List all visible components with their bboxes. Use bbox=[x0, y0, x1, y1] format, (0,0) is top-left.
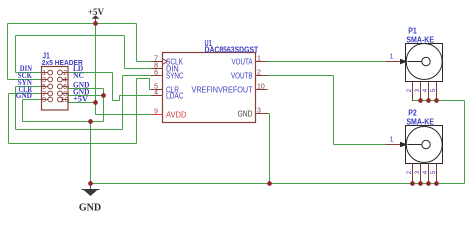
ground symbol GND bbox=[79, 184, 101, 214]
U1 pin 10 VREFINVREFOUT bbox=[192, 84, 268, 95]
U1 pin 2 VOUTB bbox=[231, 70, 268, 81]
junction U1 GND on bus bbox=[267, 181, 272, 186]
svg-text:4: 4 bbox=[154, 90, 158, 97]
svg-text:3: 3 bbox=[42, 77, 46, 84]
svg-text:6: 6 bbox=[63, 84, 67, 91]
svg-text:SYNC: SYNC bbox=[166, 71, 184, 80]
junction P2 pin3 bbox=[418, 181, 423, 186]
svg-text:GND: GND bbox=[16, 91, 33, 100]
junction P1 pin4 bbox=[426, 98, 431, 103]
junction P2 pin2 bbox=[410, 181, 415, 186]
U1 pin 8 DIN bbox=[151, 63, 179, 74]
svg-text:P2: P2 bbox=[408, 109, 417, 118]
svg-text:LDAC: LDAC bbox=[166, 91, 184, 100]
U1 pin 6 SYNC bbox=[151, 70, 184, 81]
svg-text:9: 9 bbox=[154, 109, 158, 116]
U1 pin 3 GND bbox=[238, 108, 268, 119]
svg-text:2: 2 bbox=[257, 70, 261, 77]
wire net DIN: J1 pin1 to U1 pin8 bbox=[16, 36, 152, 73]
U1 pin 1 VOUTA bbox=[232, 56, 268, 67]
svg-text:P1: P1 bbox=[408, 27, 417, 36]
svg-text:VREFINVREFOUT: VREFINVREFOUT bbox=[192, 85, 253, 94]
IC U1 DAC8563SDGST bbox=[163, 39, 259, 123]
junction P1 pin5 bbox=[434, 98, 439, 103]
P1 shield pin 3 bbox=[415, 82, 421, 102]
svg-text:10: 10 bbox=[61, 97, 69, 104]
junction +5V lower bbox=[93, 100, 98, 105]
P2 shield pin 2 bbox=[407, 164, 413, 184]
P1 shield pin 2 bbox=[407, 82, 413, 102]
junction P2 pin4 bbox=[426, 181, 431, 186]
P2 shield pin 3 bbox=[415, 164, 421, 184]
wire net +5V: power to J1 pin10 and U1 pin9 AVDD bbox=[69, 24, 152, 115]
svg-text:6: 6 bbox=[154, 70, 158, 77]
junction GND trunk upper bbox=[88, 119, 93, 124]
U1 pin7 clock arrow bbox=[163, 59, 168, 65]
svg-text:1: 1 bbox=[257, 56, 261, 63]
svg-text:GND: GND bbox=[79, 203, 101, 214]
svg-text:3: 3 bbox=[257, 108, 261, 115]
svg-text:AVDD: AVDD bbox=[166, 110, 187, 119]
wire U1 pin3 GND down to bus bbox=[268, 114, 270, 184]
J1 left net labels bbox=[16, 64, 33, 100]
wire net VOUTA: U1 pin1 to P1 bbox=[268, 61, 386, 63]
svg-text:1: 1 bbox=[390, 137, 394, 144]
wire net SYN: J1 pin5 to U1 pin6 SYNC bbox=[16, 76, 152, 130]
svg-text:VOUTB: VOUTB bbox=[231, 71, 253, 80]
connector P2 SMA-KE bbox=[386, 109, 443, 164]
svg-text:1: 1 bbox=[390, 54, 394, 61]
U1 pin 9 AVDD bbox=[151, 109, 187, 120]
U1 pin 4 LDAC bbox=[151, 90, 184, 101]
svg-text:9: 9 bbox=[42, 97, 46, 104]
svg-text:7: 7 bbox=[154, 56, 158, 63]
P2 shield pin 5 bbox=[431, 164, 437, 184]
wire net GND: J1 pins 6,8,9 to ground trunk bbox=[23, 87, 104, 184]
svg-text:+5V: +5V bbox=[88, 7, 105, 17]
svg-text:NC: NC bbox=[73, 71, 84, 80]
svg-text:+5V: +5V bbox=[73, 95, 88, 104]
junction P1 pin3 bbox=[418, 98, 423, 103]
junction P2 pin5 bbox=[434, 181, 439, 186]
svg-text:4: 4 bbox=[63, 77, 67, 84]
svg-text:1: 1 bbox=[42, 70, 46, 77]
svg-text:DAC8563SDGST: DAC8563SDGST bbox=[205, 45, 259, 54]
P1 shield pin 4 bbox=[423, 82, 429, 102]
P1 shield pin 5 bbox=[431, 82, 437, 102]
junction +5V top bbox=[93, 21, 98, 26]
wire net CLR: J1 pin7 to U1 pin5 bbox=[9, 79, 152, 144]
junction GND right rows bbox=[101, 93, 106, 98]
wire net VOUTB: U1 pin2 to P2 bbox=[268, 76, 386, 145]
svg-text:2: 2 bbox=[63, 70, 67, 77]
wire GND bus bottom bbox=[91, 183, 465, 185]
connector J1 2x5 HEADER bbox=[42, 52, 84, 111]
U1 pin 7 SCLK bbox=[151, 56, 184, 67]
U1 pin 5 CLR bbox=[151, 84, 179, 95]
svg-text:5: 5 bbox=[42, 84, 46, 91]
J1 right net labels bbox=[73, 64, 90, 103]
wire net SCK: J1 pin3 to U1 pin7 SCLK bbox=[8, 24, 152, 80]
connector P1 SMA-KE bbox=[386, 27, 443, 82]
power symbol +5V bbox=[88, 7, 105, 24]
wire P1 shield pins to GND bbox=[413, 101, 465, 184]
svg-text:GND: GND bbox=[238, 109, 253, 118]
svg-text:VOUTA: VOUTA bbox=[232, 57, 254, 66]
svg-text:10: 10 bbox=[257, 84, 265, 91]
wire net LD: J1 pin2 to U1 pin4 LDAC bbox=[68, 73, 151, 101]
svg-text:8: 8 bbox=[154, 63, 158, 70]
P2 shield pin 4 bbox=[423, 164, 429, 184]
junction GND at ground symbol bbox=[88, 181, 93, 186]
